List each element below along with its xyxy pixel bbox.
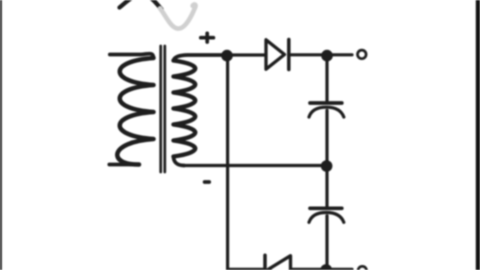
diode D2 cathode bar xyxy=(263,255,267,270)
capacitor C1 top plate xyxy=(310,101,342,105)
transformer core line 2 xyxy=(163,46,166,172)
wire: vertical from top junction down to bottom rail xyxy=(226,56,229,269)
transformer primary winding xyxy=(117,58,153,165)
wire: top rail from secondary/junction to diode D1 xyxy=(222,53,265,56)
wire: output node down to capacitor C1 xyxy=(325,56,328,101)
transformer primary bottom lead xyxy=(109,163,139,167)
- output terminal circle xyxy=(358,266,367,270)
capacitor C2 curved plate xyxy=(309,213,344,223)
wire: C2 to bottom rail xyxy=(325,216,328,270)
wire: D1 cathode to output node xyxy=(289,53,352,56)
wire: middle node down to capacitor C2 xyxy=(325,166,328,207)
node dot at + output xyxy=(321,50,333,62)
wire: D2 anode to bottom node xyxy=(291,268,353,270)
plus label xyxy=(201,33,214,42)
+ output terminal circle xyxy=(358,50,367,59)
transformer primary top lead xyxy=(110,54,154,58)
node dot between capacitors xyxy=(321,160,333,172)
left edge bar xyxy=(0,0,2,270)
diode D2 triangle xyxy=(268,256,290,270)
AC sine wave (light gray part) xyxy=(160,5,196,29)
right edge bar xyxy=(476,0,480,270)
wire: bottom rail left segment xyxy=(228,268,263,270)
node junction dot at top of vertical wire xyxy=(221,50,233,62)
AC sine wave (dark part) xyxy=(120,0,162,9)
diode D1 triangle xyxy=(266,40,285,69)
transformer core line 1 xyxy=(159,46,162,172)
node dot at - output xyxy=(320,264,332,270)
wire: middle rail from secondary bottom to middle node xyxy=(184,164,322,167)
capacitor C2 top plate xyxy=(310,206,342,210)
capacitor C1 curved plate xyxy=(309,107,344,117)
transformer secondary winding xyxy=(174,61,196,157)
minus label xyxy=(205,180,210,184)
transformer secondary top lead xyxy=(174,55,223,61)
wire: C1 to middle node xyxy=(325,111,328,166)
diode D1 cathode bar xyxy=(287,40,291,70)
transformer secondary bottom lead xyxy=(174,157,185,166)
